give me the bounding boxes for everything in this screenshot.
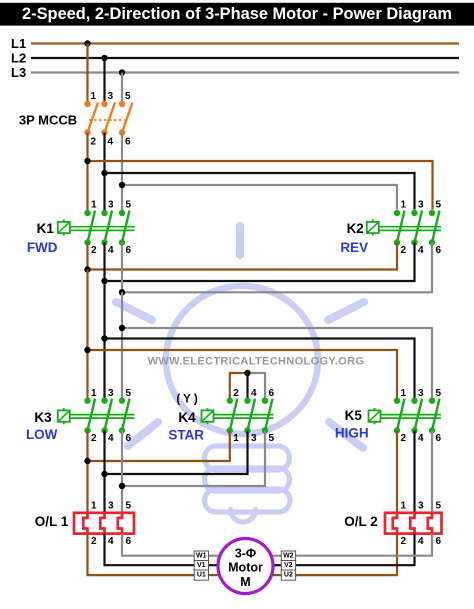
svg-text:4: 4 [108,245,114,256]
wire black to K2 pin3 [105,173,415,210]
junction brown K2 feed [84,158,90,164]
wire main brown down to K3 [86,270,88,401]
wire O/L2 pin2 to U2 [296,534,398,576]
svg-text:1: 1 [401,500,407,511]
svg-text:6: 6 [126,433,132,444]
node star point bus [230,370,265,401]
svg-text:L3: L3 [11,65,26,80]
terminal U1 [194,570,208,580]
terminal W2 [281,551,295,561]
svg-text:4: 4 [418,433,424,444]
svg-text:STAR: STAR [168,428,204,443]
svg-text:U1: U1 [197,572,206,579]
svg-text:K5: K5 [345,408,363,423]
wire W1 to motor [209,555,221,557]
svg-text:3P MCCB: 3P MCCB [19,113,77,128]
contactor K3 [26,388,135,444]
terminal U2 [281,570,295,580]
title bar [0,3,474,26]
svg-text:6: 6 [126,245,132,256]
wire O/L2 pin4 to V2 [296,534,415,566]
svg-text:WWW.ELECTRICALTECHNOLOGY.ORG: WWW.ELECTRICALTECHNOLOGY.ORG [148,356,365,368]
terminal V1 [194,561,208,571]
svg-text:6: 6 [436,433,442,444]
junction black K2 feed [101,170,107,176]
svg-text:K3: K3 [34,410,52,425]
svg-text:3: 3 [108,500,114,511]
svg-text:REV: REV [340,240,368,255]
wire gray to K5 pin5 [122,328,432,401]
svg-text:1: 1 [401,200,407,211]
svg-text:6: 6 [125,137,131,148]
wire K3 pin6 / K4 pin5 node [122,431,265,514]
svg-text:2: 2 [91,536,97,547]
wire gray to K2 pin1 [122,185,397,210]
svg-text:K2: K2 [347,221,364,236]
contactor K5 [335,388,442,444]
svg-text:O/L 2: O/L 2 [344,514,378,529]
wire brown to K2 pin5 [88,161,433,210]
terminal W1 [194,551,208,561]
svg-text:HIGH: HIGH [335,425,369,440]
wire K1 pin6 / K2 pin6 bus [122,243,432,293]
junction black motor node [101,471,107,477]
terminal V2 [281,561,295,571]
wire O/L2 pin6 to W2 [296,534,433,556]
svg-text:L2: L2 [11,51,26,66]
svg-text:3: 3 [418,500,424,511]
svg-text:1: 1 [91,500,97,511]
wire K5 pin2 to O/L2 [396,431,398,514]
wire MCCB pin4 down [103,133,105,213]
contactor K4 [168,388,274,444]
wire U2 to motor [271,574,281,576]
svg-text:K1: K1 [37,221,55,236]
wire L3 to MCCB pin5 [121,73,123,105]
wire brown to K5 pin1 [88,350,398,401]
svg-text:2: 2 [401,245,407,256]
svg-text:Motor: Motor [228,561,263,575]
wire K5 pin6 to O/L2 [431,431,433,514]
wire U1 to motor [209,574,221,576]
svg-text:5: 5 [436,388,442,399]
wire K5 pin4 to O/L2 [413,431,415,514]
wire MCCB pin2 down [86,133,88,213]
svg-text:6: 6 [269,388,275,399]
wire main black down to K3 [103,281,105,401]
svg-text:4: 4 [108,433,114,444]
junction gray motor node [119,483,125,489]
svg-text:5: 5 [126,500,132,511]
breaker 3P MCCB [19,91,133,148]
wire O/L1 pin6 to W1 [122,534,194,556]
svg-text:2: 2 [401,433,407,444]
svg-text:1: 1 [401,388,407,399]
wire K1 pin4 / K2 pin4 bus [105,243,415,282]
svg-text:3-Φ: 3-Φ [235,547,256,561]
svg-text:4: 4 [251,388,257,399]
contactor K2 [340,200,441,257]
svg-text:4: 4 [418,245,424,256]
wire K1 pin2 / K2 pin2 bus [88,243,398,270]
svg-text:4: 4 [418,536,424,547]
svg-text:( Y ): ( Y ) [176,393,197,405]
svg-text:3: 3 [108,91,114,102]
svg-text:K4: K4 [178,410,196,425]
svg-text:6: 6 [126,536,132,547]
bus L2 [11,51,459,66]
wire main gray down to K3 [121,292,123,400]
svg-text:3: 3 [418,200,424,211]
wire O/L1 pin4 to V1 [105,534,195,566]
junction brown motor node [84,458,90,464]
svg-text:FWD: FWD [27,240,58,255]
junction brown K5 feed [84,347,90,353]
svg-text:6: 6 [436,536,442,547]
overload relay O/L1 [35,500,134,547]
svg-text:6: 6 [436,245,442,256]
wire K3 pin4 / K4 pin3 node [105,431,248,514]
wire L2 to MCCB pin3 [103,58,105,104]
svg-text:5: 5 [436,200,442,211]
svg-text:2-Speed, 2-Direction of 3-Phas: 2-Speed, 2-Direction of 3-Phase Motor - … [22,5,452,23]
junction gray K5 feed [119,325,125,331]
svg-text:3: 3 [251,433,257,444]
svg-text:V1: V1 [197,562,206,569]
junction L3 tap [119,69,125,75]
svg-text:O/L 1: O/L 1 [35,514,69,529]
wire L1 to MCCB pin1 [86,44,88,105]
wire K3 pin2 / K4 pin1 node [88,431,230,514]
svg-text:3: 3 [418,388,424,399]
svg-text:3: 3 [108,388,114,399]
svg-text:1: 1 [233,433,239,444]
wire O/L1 pin2 to U1 [88,534,195,576]
svg-text:V2: V2 [284,562,293,569]
junction L1 tap [84,40,90,46]
svg-text:5: 5 [126,200,132,211]
wire V1 to motor [209,564,219,566]
overload relay O/L2 [344,500,441,547]
svg-text:3: 3 [108,200,114,211]
junction black out bus [101,278,107,284]
contactor K1 [27,200,135,257]
svg-text:2: 2 [91,137,97,148]
svg-text:2: 2 [233,388,239,399]
svg-text:LOW: LOW [26,427,58,442]
svg-text:W1: W1 [196,552,207,559]
svg-text:2: 2 [91,433,97,444]
svg-text:W2: W2 [283,552,294,559]
wire MCCB pin6 down [121,133,123,213]
svg-text:1: 1 [91,200,97,211]
svg-text:5: 5 [125,91,131,102]
svg-text:L1: L1 [11,36,26,51]
svg-text:2: 2 [401,536,407,547]
watermark logo bulb [116,226,364,522]
junction brown out bus [84,266,90,272]
junction gray K2 feed [119,182,125,188]
svg-text:5: 5 [126,388,132,399]
junction black K5 feed [101,335,107,341]
junction L2 tap [101,55,107,61]
svg-text:2: 2 [91,245,97,256]
svg-text:1: 1 [91,388,97,399]
svg-text:5: 5 [436,500,442,511]
bus L3 [11,65,459,80]
wire black to K5 pin3 [105,339,415,401]
svg-text:1: 1 [91,91,97,102]
junction gray out bus [119,289,125,295]
wire V2 to motor [273,564,281,566]
svg-text:U2: U2 [284,572,293,579]
wire W2 to motor [271,555,281,557]
motor M [218,539,273,594]
svg-text:4: 4 [108,536,114,547]
svg-text:5: 5 [269,433,275,444]
bus L1 [11,36,459,51]
svg-text:M: M [240,575,250,589]
svg-text:4: 4 [108,137,114,148]
